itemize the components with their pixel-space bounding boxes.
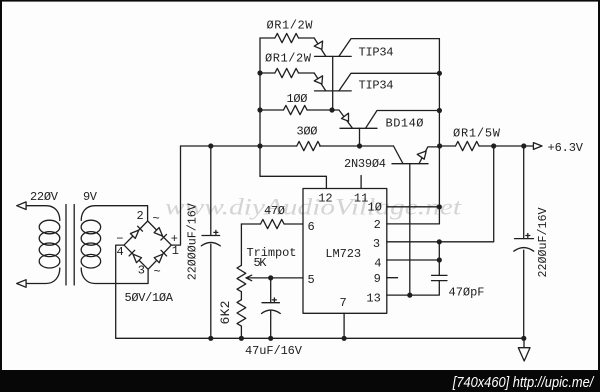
- svg-text:4: 4: [117, 245, 124, 259]
- trimpot RV 5K zigzag: [237, 265, 246, 291]
- resistor R 470: [261, 219, 285, 228]
- transistor Q BD140 emitter arrow: [342, 113, 349, 121]
- svg-text:2N39Ø4: 2N39Ø4: [344, 157, 386, 171]
- svg-text:47ØpF: 47ØpF: [449, 286, 485, 300]
- svg-text:22ØØØuF/16V: 22ØØØuF/16V: [185, 203, 199, 280]
- junction dot pin10 row: [437, 204, 442, 209]
- svg-text:47uF/16V: 47uF/16V: [245, 344, 303, 358]
- svg-text:+6.3V: +6.3V: [548, 141, 584, 155]
- trimpot RV 5K wiper arrow: [246, 275, 252, 281]
- wire pin5 row / wiper: [246, 277, 303, 279]
- wire left vertical bus: [259, 38, 261, 176]
- wire pin6 row: [241, 223, 303, 225]
- svg-text:3: 3: [138, 264, 145, 278]
- junction dot output row left: [437, 143, 442, 148]
- svg-text:9: 9: [374, 272, 381, 286]
- transistor Q BD140 collector: [366, 111, 440, 129]
- transistor Q BD140 emitter: [332, 110, 353, 128]
- resistor R 0R1/2W (second): [275, 68, 299, 77]
- svg-text:−: −: [116, 232, 123, 246]
- wire bridge plus riser: [171, 146, 180, 245]
- junction dot ground 6K2: [239, 336, 244, 341]
- wire right vertical bus: [387, 39, 440, 224]
- transistor Q 2N3904 collector: [409, 164, 411, 295]
- resistor R 300: [297, 141, 321, 150]
- transistor Q TIP34 no.1 base bar: [315, 55, 352, 57]
- junction dot sense tap: [491, 143, 496, 148]
- transformer T1 core: [66, 205, 74, 286]
- capacitor C 47uF plus sign: [272, 298, 276, 302]
- svg-text:~: ~: [153, 212, 160, 226]
- junction dot row2 right: [437, 71, 442, 76]
- svg-text:3ØØ: 3ØØ: [297, 125, 318, 139]
- wire row4 main: [181, 145, 394, 147]
- wire ground row: [116, 337, 525, 339]
- junction dot ground 22000uF: [208, 336, 213, 341]
- capacitor C 47uF leads: [270, 278, 272, 338]
- transistor Q 2N3904 base bar: [392, 163, 428, 165]
- svg-text:9V: 9V: [83, 190, 98, 204]
- border right: [598, 0, 600, 392]
- svg-text:5: 5: [308, 273, 315, 287]
- junction dot BD140 base: [357, 143, 362, 148]
- junction dot ground right: [521, 336, 526, 341]
- capacitor C 22000uF plates: [201, 236, 220, 246]
- svg-text:1ØØ: 1ØØ: [287, 92, 308, 106]
- transistor Q TIP34 no.1 collector: [339, 39, 440, 57]
- wire pin7: [343, 313, 345, 338]
- transistor Q TIP34 no.2 base bar: [315, 90, 352, 92]
- wire pin3 row: [387, 241, 440, 243]
- svg-text:11: 11: [354, 192, 368, 206]
- svg-text:22ØØuF/16V: 22ØØuF/16V: [536, 208, 550, 278]
- svg-text:5ØV/1ØA: 5ØV/1ØA: [125, 291, 174, 305]
- transistor Q 2N3904 emitter: [419, 147, 440, 164]
- svg-text:13: 13: [366, 291, 380, 305]
- transformer T1 secondary coil: [81, 220, 101, 268]
- svg-text:3: 3: [373, 237, 380, 251]
- wire row2: [260, 72, 314, 74]
- transistor Q BD140 base lead: [359, 128, 361, 146]
- bridge diode D bottom-right: [154, 254, 163, 263]
- svg-text:22ØV: 22ØV: [30, 190, 59, 204]
- wire TIP34 bases vertical: [332, 56, 334, 110]
- wire output row: [440, 145, 533, 147]
- svg-text:1: 1: [172, 244, 179, 258]
- wire pin12: [260, 176, 326, 188]
- transistor Q TIP34 no.1 emitter: [314, 38, 326, 56]
- junction dot pin3 row: [437, 239, 442, 244]
- wire trimpot column: [240, 224, 242, 338]
- capacitor C 470pF plates: [432, 275, 448, 280]
- junction dot ground 47uF: [268, 336, 273, 341]
- transistor Q BD140 base bar: [340, 127, 377, 129]
- svg-text:2: 2: [374, 218, 381, 232]
- svg-text:6: 6: [308, 220, 315, 234]
- wire row3: [260, 109, 332, 111]
- svg-text:6K2: 6K2: [218, 301, 233, 325]
- svg-text:TIP34: TIP34: [359, 46, 394, 60]
- transformer T1 primary coil: [39, 220, 60, 268]
- transistor Q TIP34 no.2 collector: [339, 73, 440, 91]
- resistor R 0R1/5W: [456, 141, 480, 150]
- bottom black bar: [0, 370, 600, 392]
- capacitor C 2200uF plates: [514, 239, 534, 252]
- junction dot BD140 emitter: [329, 107, 334, 112]
- svg-text:12: 12: [318, 192, 332, 206]
- bridge diode D top-right: [154, 228, 163, 237]
- svg-text:~: ~: [154, 265, 161, 279]
- resistor R 6K2 zigzag: [237, 300, 246, 326]
- wire pin4 row: [387, 259, 440, 261]
- wire bridge minus drop: [116, 245, 124, 338]
- transistor Q TIP34 no.1 emitter arrow: [314, 41, 322, 49]
- svg-text:[740x460] http://upic.me/: [740x460] http://upic.me/: [452, 375, 595, 391]
- junction dot pin4 row: [437, 257, 442, 262]
- svg-text:5K: 5K: [254, 256, 268, 270]
- transformer T1 primary arrows: [17, 202, 26, 287]
- svg-text:BD14Ø: BD14Ø: [386, 117, 424, 131]
- IC U LM723 body: [303, 189, 387, 314]
- output terminal arrow: [533, 143, 542, 150]
- wire pin9 stub: [387, 277, 398, 279]
- svg-text:1Ø: 1Ø: [368, 201, 382, 215]
- capacitor C 2200uF leads: [523, 146, 525, 338]
- junction dot row3 left: [257, 107, 262, 112]
- wire pin11 stub: [360, 176, 362, 189]
- junction dot 2200uF tap: [521, 143, 526, 148]
- capacitor C 22000uF plus sign: [214, 230, 218, 234]
- junction dot pin13 row: [407, 293, 412, 298]
- svg-text:7: 7: [340, 296, 347, 310]
- resistor R 0R1/2W (top): [275, 33, 299, 42]
- svg-text:47Ø: 47Ø: [264, 204, 285, 218]
- capacitor C 47uF plates: [262, 303, 281, 314]
- svg-text:ØR1/2W: ØR1/2W: [265, 52, 312, 66]
- border top: [0, 0, 600, 2]
- svg-text:LM723: LM723: [325, 247, 361, 261]
- transformer T1 secondary leads: [81, 206, 148, 284]
- capacitor C 470pF leads: [387, 242, 440, 295]
- svg-text:ØR1/5W: ØR1/5W: [453, 127, 501, 141]
- svg-text:ØR1/2W: ØR1/2W: [267, 19, 314, 33]
- transistor Q TIP34 no.2 emitter: [314, 73, 326, 91]
- wire pin10 row: [387, 206, 440, 208]
- junction dot row4 left bus: [257, 143, 262, 148]
- junction dot wiper tap: [268, 275, 273, 280]
- resistor R 100: [284, 105, 308, 114]
- svg-text:TIP34: TIP34: [359, 79, 394, 93]
- ground symbol: [518, 338, 530, 361]
- junction dot ground pin7: [342, 336, 347, 341]
- capacitor C 22000uF leads: [210, 146, 212, 338]
- bridge diode D top-left: [130, 230, 138, 238]
- bridge diode D bottom-left: [133, 254, 142, 263]
- wire sense line right: [439, 146, 493, 242]
- transistor Q 2N3904 emitter arrow: [417, 151, 426, 159]
- bridge rectifier diamond: [124, 221, 171, 269]
- junction dot 22000uF tap: [208, 143, 213, 148]
- transistor Q TIP34 no.2 emitter arrow: [314, 76, 322, 84]
- border left: [0, 0, 2, 392]
- junction dot row3 right: [437, 108, 442, 113]
- wire top rail row1: [260, 37, 314, 39]
- capacitor C 2200uF plus sign: [526, 234, 530, 238]
- svg-text:4: 4: [374, 256, 381, 270]
- junction dot row2 left: [257, 70, 262, 75]
- transformer T1 primary leads: [26, 206, 60, 284]
- svg-text:2: 2: [137, 209, 144, 223]
- transistor Q 2N3904 base lead: [394, 146, 404, 164]
